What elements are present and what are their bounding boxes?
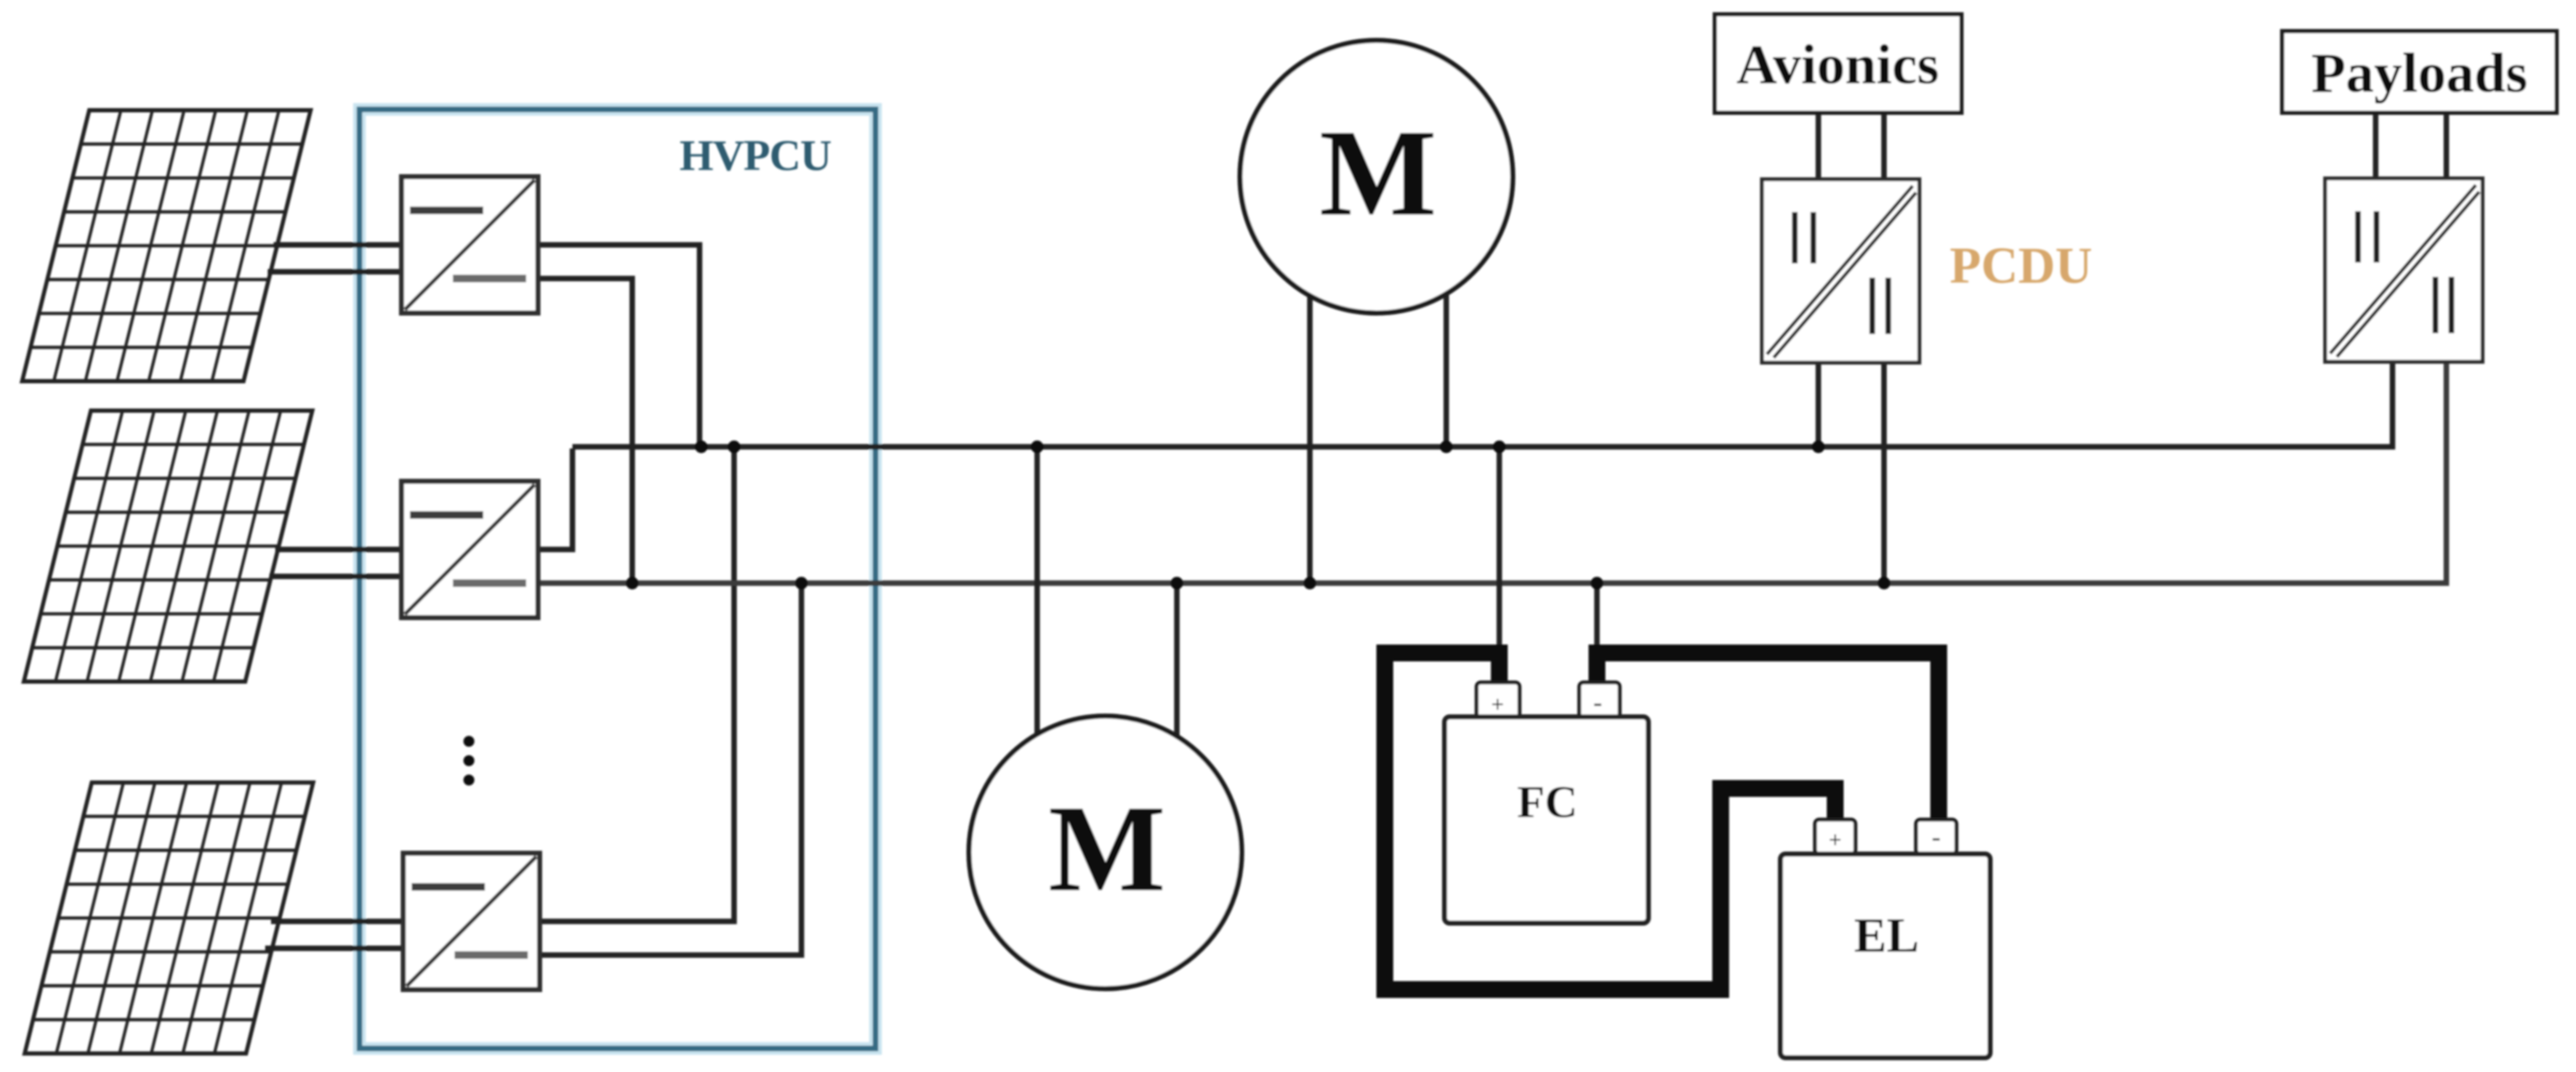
- svg-text:FC: FC: [1517, 777, 1578, 827]
- svg-text:M: M: [1319, 104, 1437, 242]
- svg-text:-: -: [1594, 687, 1603, 717]
- svg-text:+: +: [1491, 692, 1504, 717]
- svg-text:EL: EL: [1854, 908, 1919, 963]
- svg-text:PCDU: PCDU: [1950, 238, 2092, 295]
- svg-text:M: M: [1048, 780, 1166, 918]
- svg-text:Avionics: Avionics: [1737, 34, 1940, 96]
- svg-text:Payloads: Payloads: [2312, 42, 2528, 104]
- svg-text:HVPCU: HVPCU: [679, 132, 831, 180]
- svg-text:+: +: [1828, 827, 1841, 852]
- svg-text:-: -: [1932, 821, 1941, 852]
